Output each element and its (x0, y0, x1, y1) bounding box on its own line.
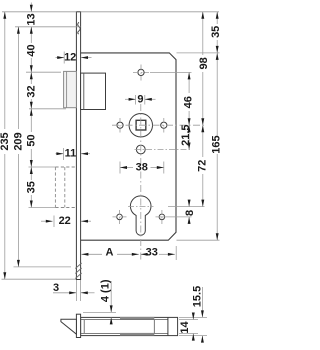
svg-text:33: 33 (146, 247, 158, 259)
svg-text:15.5: 15.5 (191, 286, 203, 307)
arrow 12 right (81, 56, 88, 59)
extension line y26.8 (15, 26, 76, 28)
arrow 15.5 top (201, 310, 204, 317)
arrow 40 top (30, 27, 33, 34)
dim line 38 (120, 167, 133, 169)
svg-text:38: 38 (136, 162, 148, 174)
dim line 209 (17, 27, 19, 129)
extension line cyl holes right (156, 216, 192, 218)
centerline top hole horizontal (133, 71, 149, 73)
arrow 13 top (30, 5, 33, 12)
dim line 46 21.5 8 right (188, 72, 190, 93)
dim line 235 (4, 12, 6, 129)
arrow 9 right (145, 98, 152, 101)
bottom view faceplate (76, 314, 80, 337)
extension line top hole right (150, 71, 192, 73)
bottom view latch bolt head (61, 319, 77, 334)
arrow 235 bottom (3, 272, 6, 279)
faceplate break mark top (78, 22, 81, 34)
centerline vertical through spindle and cylinder (140, 104, 142, 261)
arrow 98 top (201, 12, 204, 19)
centerline cyl left hole v (119, 210, 121, 224)
arrow 15.5 bottom (201, 336, 204, 343)
arrow 32 top (30, 72, 33, 79)
arrow 46 top (188, 72, 191, 79)
dim line 12 (56, 57, 65, 59)
arrow 12 left (57, 56, 64, 59)
extension line mid circle right (135, 149, 192, 151)
arrow 33 right (168, 253, 175, 256)
spindle square (136, 120, 146, 130)
arrow 33 left (141, 253, 148, 256)
side fixing hole right (161, 122, 167, 128)
svg-text:98: 98 (198, 57, 210, 69)
arrow 50 top (30, 109, 33, 116)
arrow 35 bottom (30, 201, 33, 208)
svg-text:13: 13 (25, 13, 37, 25)
arrow 11 right (81, 152, 88, 155)
svg-text:9: 9 (137, 93, 143, 105)
arrow 14 top (192, 313, 195, 320)
dim line 22 (41, 220, 53, 222)
arrow 32 bottom (30, 102, 33, 109)
arrow 72 bottom (201, 200, 204, 207)
extension line case top right (177, 52, 220, 54)
svg-text:A: A (106, 247, 114, 259)
svg-text:35: 35 (210, 26, 222, 38)
dim line 14 (192, 313, 194, 320)
faceplate break hatch bottom (75, 263, 81, 279)
side fixing hole left (117, 122, 123, 128)
tick for 12 (63, 52, 65, 64)
euro cylinder hole (130, 196, 151, 235)
svg-text:12: 12 (64, 52, 76, 64)
middle hole (136, 145, 145, 154)
svg-text:14: 14 (179, 321, 191, 334)
arrow 40 bottom (30, 65, 33, 72)
tick for 11 (62, 148, 64, 160)
arrow 165 bottom (216, 233, 219, 240)
bottom view end cap (167, 317, 169, 335)
arrow 8 top (188, 200, 191, 207)
centerline top hole vertical (140, 65, 142, 81)
top fixing hole (138, 69, 144, 75)
bottom view case inner walls (81, 319, 168, 321)
bottom view latch bar thick top (120, 317, 154, 320)
svg-text:72: 72 (196, 160, 208, 172)
spindle follower circle (129, 114, 152, 137)
bottom view case (81, 317, 178, 335)
arrow 9 left (129, 98, 136, 101)
extension line y167 left (29, 166, 56, 168)
extension line y266.9 (14, 266, 72, 268)
arrow 165 top (216, 53, 219, 60)
arrow A right (132, 253, 139, 256)
extension line y279.2 (2, 278, 77, 280)
arrow A left (81, 253, 88, 256)
ticks for 9 (135, 95, 137, 105)
extension line case bottom right (177, 239, 220, 241)
extension line y207.5 left (29, 207, 56, 209)
arrow 4(1) bottom (110, 317, 113, 324)
svg-text:46: 46 (183, 96, 195, 108)
bottom view inner vertical (153, 320, 155, 334)
svg-text:8: 8 (184, 210, 196, 216)
svg-text:32: 32 (25, 85, 37, 97)
svg-text:235: 235 (0, 132, 11, 150)
ticks for 38 (119, 162, 121, 174)
arrow 98 bottom (201, 118, 204, 125)
tick for 22 (53, 216, 55, 228)
arrow 21.5 top (188, 125, 191, 132)
bottom view latch bar thick bottom (120, 333, 154, 336)
arrow 72 top (201, 125, 204, 132)
ext lines 15.5 (179, 316, 207, 318)
latch body (81, 73, 106, 109)
arrow 50 bottom (30, 160, 33, 167)
arrow 35r top (216, 12, 219, 19)
svg-text:165: 165 (211, 135, 222, 153)
centerline side hole left v (119, 118, 121, 133)
arrow 4(1) top (110, 305, 113, 312)
lock case outline (81, 53, 176, 240)
arrow 38 left (120, 166, 127, 169)
dim line 98 72 right (202, 12, 204, 55)
svg-text:3: 3 (53, 282, 59, 294)
centerline horizontal through spindle (112, 124, 205, 126)
svg-text:209: 209 (12, 132, 24, 150)
ext lines 14 (179, 319, 198, 321)
tick for 33 right (175, 246, 177, 260)
arrow 209 top (17, 27, 20, 34)
bottom view latch inner vertical (83, 320, 85, 334)
dim line 15.5 (201, 287, 203, 317)
dim line 3 (53, 292, 76, 294)
dim line 35 165 right (216, 12, 218, 24)
arrow 14 bottom (192, 334, 195, 341)
arrow 35 top (30, 167, 33, 174)
centerline side hole right v (163, 118, 165, 133)
svg-text:40: 40 (25, 44, 37, 56)
extension line cylinder right (168, 206, 205, 208)
cyl fixing hole right (159, 214, 165, 220)
dim line 9 (125, 98, 135, 100)
centerline cyl left hole (113, 216, 127, 218)
arrow 21.5 bottom (188, 143, 191, 150)
extension line y72.2 (26, 71, 61, 73)
dashed pocket rectangle (55, 167, 76, 208)
arrow 209 bottom (17, 260, 20, 267)
extension line y108.8 (29, 108, 66, 110)
latch head (64, 71, 77, 107)
arrow 35r bottom (216, 46, 219, 53)
svg-text:21.5: 21.5 (180, 124, 192, 145)
svg-text:11: 11 (65, 148, 77, 160)
dim chain 13 40 32 50 35 (30, 3, 32, 12)
centerline cyl right hole v (161, 210, 163, 224)
svg-text:4 (1): 4 (1) (100, 279, 112, 302)
arrow 3 right (81, 291, 88, 294)
arrow 3 left (69, 291, 76, 294)
dim line 11 (56, 153, 64, 155)
cyl fixing hole left (117, 214, 123, 220)
svg-text:50: 50 (25, 134, 37, 146)
arrow 8 bottom (188, 217, 191, 224)
arrow 38 right (157, 166, 164, 169)
centerline cylinder horizontal (128, 206, 154, 208)
extension line faceplate top (2, 11, 76, 13)
ext line 4(1) reference (83, 311, 116, 313)
arrow 22 left (46, 220, 53, 223)
faceplate (76, 12, 80, 280)
svg-text:22: 22 (59, 215, 71, 227)
arrow 235 top (3, 12, 6, 19)
dim line 4(1) (110, 281, 112, 312)
svg-text:35: 35 (25, 181, 37, 193)
arrow 11 left (56, 152, 63, 155)
arrow 46 bottom (188, 118, 191, 125)
arrow 22 right (81, 220, 88, 223)
ext verticals for 3 (75, 280, 77, 301)
dim line A 33 (81, 253, 102, 255)
